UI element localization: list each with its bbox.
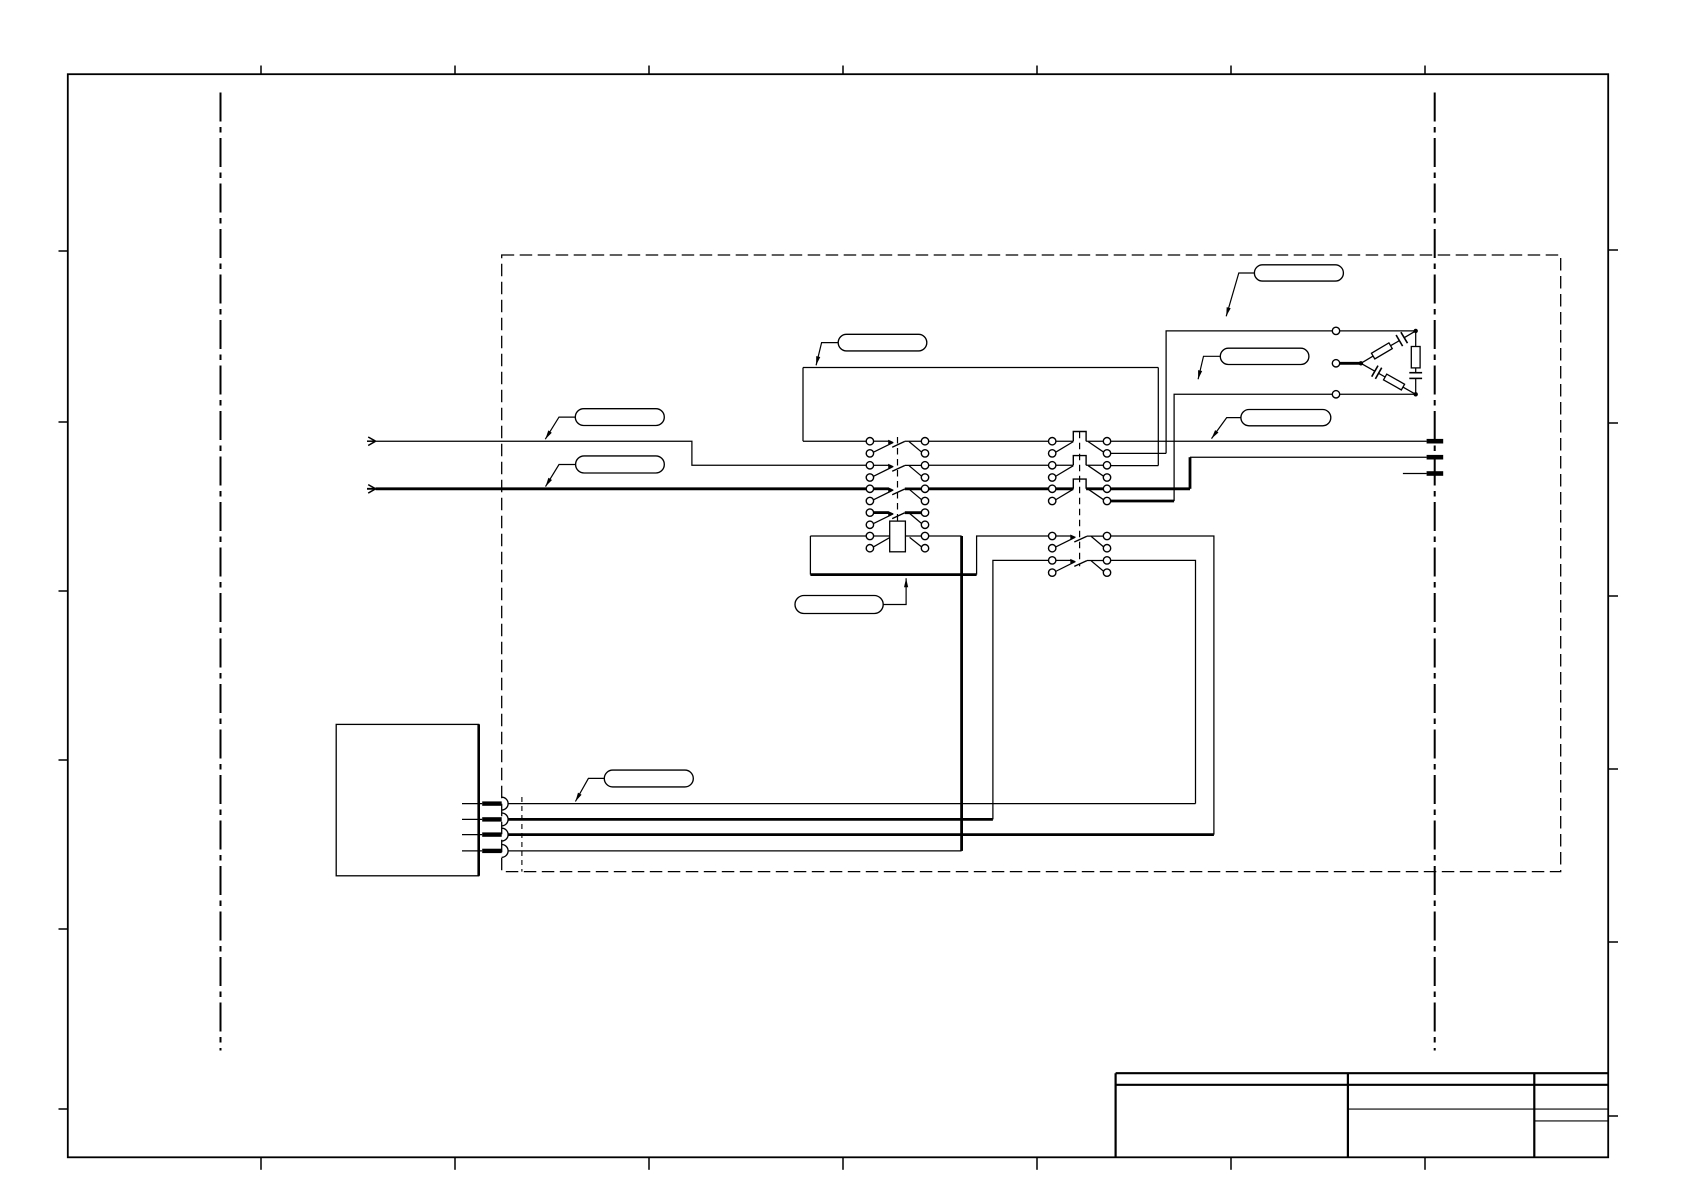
node A junction dot bbox=[1414, 329, 1418, 333]
capacitor C3 bbox=[1409, 373, 1422, 379]
wire row5 right to bold riser bbox=[929, 535, 962, 537]
bold riser to cable wire 4 bbox=[960, 536, 963, 851]
phase terminal circle P2 bbox=[1332, 360, 1339, 367]
resistor R3 bbox=[1411, 347, 1420, 368]
callout balloon B2 bbox=[1220, 348, 1309, 364]
coil / actuator box bbox=[890, 521, 906, 552]
leader B7 bbox=[883, 578, 906, 604]
cable screen dashed line bbox=[521, 797, 523, 872]
wire aux rowA left bbox=[977, 536, 1049, 575]
switch S1 contact row4 bbox=[873, 511, 922, 524]
capacitor C2 bbox=[1372, 366, 1382, 379]
aux switch S2 terminal circles bbox=[1049, 532, 1111, 576]
terminal bar T3 bbox=[1427, 471, 1444, 476]
dashed enclosure boundary bbox=[502, 255, 1561, 872]
phase terminal circle P3 bbox=[1332, 391, 1339, 398]
wire aux rowB right loop bbox=[1111, 560, 1196, 803]
wire L1 feeder bbox=[376, 441, 867, 465]
leader B5 bbox=[545, 417, 575, 439]
callout balloon B4 bbox=[838, 334, 927, 351]
wire row5 left stub bbox=[810, 535, 866, 537]
node C junction dot bbox=[1414, 392, 1418, 396]
connector pin 3 bbox=[462, 828, 508, 841]
terminal bar T2 bbox=[1427, 455, 1444, 460]
cable wire 4 bbox=[508, 850, 961, 852]
wire row2 right to riser bbox=[1111, 465, 1159, 467]
callout balloon B7 bbox=[795, 596, 883, 614]
equipment box bold edge bbox=[477, 724, 480, 875]
node B junction dot bbox=[1359, 361, 1363, 365]
input arrow L2 bbox=[367, 485, 376, 494]
right centerline (dash-dot) bbox=[1434, 93, 1436, 1051]
callout balloon B5 bbox=[575, 409, 664, 426]
resistor R2 bbox=[1383, 374, 1404, 390]
wire row1 between blocks bbox=[929, 440, 1049, 442]
connector pin 1 bbox=[462, 797, 508, 810]
aux switch S2 contact rowB bbox=[1056, 559, 1104, 572]
contactor K1 contact row2 bbox=[1056, 456, 1104, 477]
leader B1 bbox=[1226, 273, 1254, 316]
callout balloon B8 bbox=[604, 770, 693, 787]
callout balloon B6 bbox=[576, 456, 665, 473]
switch S1 terminal circles bbox=[866, 438, 929, 552]
riser row3 to terminal bar 2 bbox=[1189, 457, 1192, 489]
wire loop top edge bbox=[803, 367, 1158, 369]
switch S1 contact row1 bbox=[873, 440, 922, 453]
wire A-C segments bbox=[1415, 331, 1417, 394]
wire R1 branch segments bbox=[1361, 331, 1416, 363]
title block row divider bbox=[1348, 1108, 1608, 1110]
resistor R1 bbox=[1371, 343, 1392, 359]
leader B3 bbox=[1212, 418, 1241, 439]
wire P3 to node C bbox=[1340, 393, 1416, 395]
wire aux rowA right loop bbox=[1111, 536, 1214, 835]
switch S1 contact row5 bbox=[873, 536, 922, 547]
terminal bar T1 bbox=[1427, 439, 1444, 444]
wire row1-NC to riser bbox=[1111, 452, 1167, 454]
wire row3-NC (bold) bbox=[1111, 500, 1175, 503]
right border zone ticks bbox=[1608, 250, 1618, 1116]
wire loop right edge bbox=[1157, 368, 1159, 466]
leader B8 bbox=[575, 778, 604, 801]
cable wire 3 (bold) bbox=[508, 833, 1214, 836]
wire row2 between blocks bbox=[929, 464, 1049, 466]
switch S1 contact row3 bbox=[873, 487, 922, 500]
riser to phase terminal 1 bbox=[1166, 331, 1332, 454]
wire loop left edge bbox=[802, 368, 804, 442]
wire P2 to node B (bold) bbox=[1340, 362, 1361, 365]
callout balloon B3 bbox=[1241, 410, 1331, 426]
bottom border zone ticks bbox=[261, 1157, 1425, 1170]
cable wire 2 (bold) bbox=[508, 818, 993, 821]
stub to terminal bar 3 bbox=[1403, 473, 1427, 475]
switch S1 contact row2 bbox=[873, 464, 922, 477]
equipment box bbox=[336, 724, 479, 875]
riser to phase terminal 3 bbox=[1174, 394, 1332, 501]
wire R2 branch segments bbox=[1361, 363, 1416, 394]
connector pin 4 bbox=[462, 845, 508, 858]
wire row1 left stub bbox=[803, 440, 866, 442]
contactor K1 terminal circles bbox=[1049, 438, 1111, 505]
cable wire 1 bbox=[508, 803, 1195, 805]
wire L2 feeder (bold) bbox=[376, 487, 867, 490]
title block outline bbox=[1116, 1073, 1609, 1157]
contactor K1 contact row3 bbox=[1056, 479, 1104, 500]
wire aux rowB left bbox=[993, 560, 1049, 819]
leader B2 bbox=[1198, 356, 1220, 379]
title block sub divider bbox=[1534, 1120, 1608, 1122]
wire row3 right (bold) bbox=[1111, 487, 1190, 490]
callout balloon B1 bbox=[1254, 265, 1343, 281]
wire to terminal bar 2 bbox=[1190, 456, 1427, 458]
wire coil loop left edge bbox=[809, 536, 811, 575]
phase terminal circle P1 bbox=[1332, 327, 1339, 334]
wire row3 between blocks (bold) bbox=[929, 487, 1049, 490]
wire P1 to node A bbox=[1340, 330, 1416, 332]
contactor K1 gang line (dashed) bbox=[1079, 432, 1081, 567]
leader B6 bbox=[546, 465, 576, 487]
input arrow L1 bbox=[367, 437, 376, 446]
switch S1 gang line (dashed) bbox=[897, 437, 899, 521]
aux switch S2 contact rowA bbox=[1056, 535, 1104, 548]
wire coil loop bottom (bold) bbox=[810, 573, 976, 576]
wire row1 to terminal bbox=[1111, 440, 1427, 442]
left border zone ticks bbox=[59, 251, 68, 1109]
top border zone ticks bbox=[261, 66, 1425, 75]
left centerline (dash-dot) bbox=[220, 93, 222, 1051]
connector pin 2 bbox=[462, 813, 508, 826]
contactor K1 contact row1 bbox=[1056, 432, 1104, 453]
capacitor C1 bbox=[1396, 332, 1407, 346]
leader B4 bbox=[816, 343, 838, 366]
